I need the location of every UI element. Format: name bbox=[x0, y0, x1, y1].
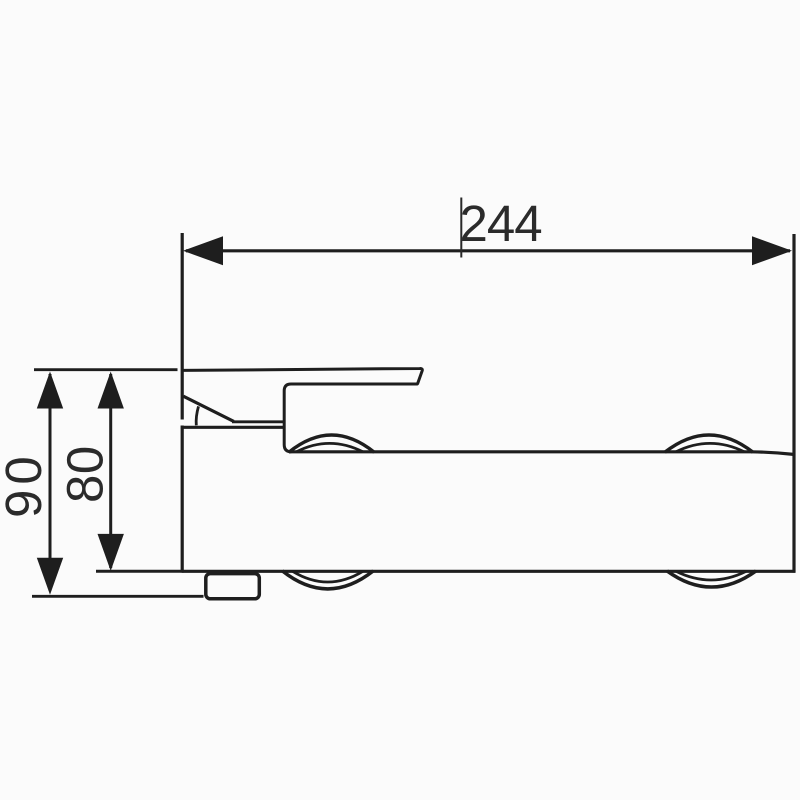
bottom extension line for 80 bbox=[96, 570, 182, 573]
right top flange lens (inner arc) bbox=[676, 443, 744, 451]
top extension line for 90/80 bbox=[34, 368, 178, 371]
faucet body bottom edge bbox=[182, 570, 795, 573]
faucet body top edge bbox=[289, 452, 794, 455]
deck top edge bbox=[181, 426, 284, 429]
right top flange lens (outer arc) bbox=[665, 435, 753, 452]
left bottom flange lens (outer arc) bbox=[282, 571, 373, 589]
pivot arc bbox=[196, 406, 198, 425]
handle base line bbox=[232, 420, 284, 423]
right bottom flange lens (outer arc) bbox=[667, 571, 756, 587]
right bottom flange lens (inner arc) bbox=[676, 571, 746, 580]
right extension line / body right edge bbox=[792, 234, 795, 573]
left extension line (merges into body left edge) bbox=[181, 233, 184, 420]
small tick near 244 text bbox=[460, 198, 462, 258]
handle pivot diagonal bbox=[183, 396, 234, 421]
bottom extension line for 90 bbox=[32, 595, 204, 598]
left bottom flange lens (inner arc) bbox=[293, 571, 363, 582]
dimension 80 (vertical, inner) bbox=[109, 374, 112, 568]
faucet body left edge bbox=[181, 426, 184, 573]
left top flange lens (outer arc) bbox=[289, 435, 375, 452]
left top flange lens (inner arc) bbox=[297, 443, 363, 451]
svg-text:80: 80 bbox=[57, 445, 114, 503]
left arrowhead bbox=[183, 236, 223, 265]
svg-text:90: 90 bbox=[0, 451, 52, 518]
right arrowhead bbox=[752, 236, 792, 265]
lever handle outline bbox=[183, 368, 423, 451]
svg-text:244: 244 bbox=[460, 195, 542, 252]
dimension line 244 (horizontal) bbox=[186, 249, 790, 252]
aerator outlet bbox=[206, 574, 259, 599]
dimension 90 (vertical, outer) bbox=[49, 374, 52, 591]
